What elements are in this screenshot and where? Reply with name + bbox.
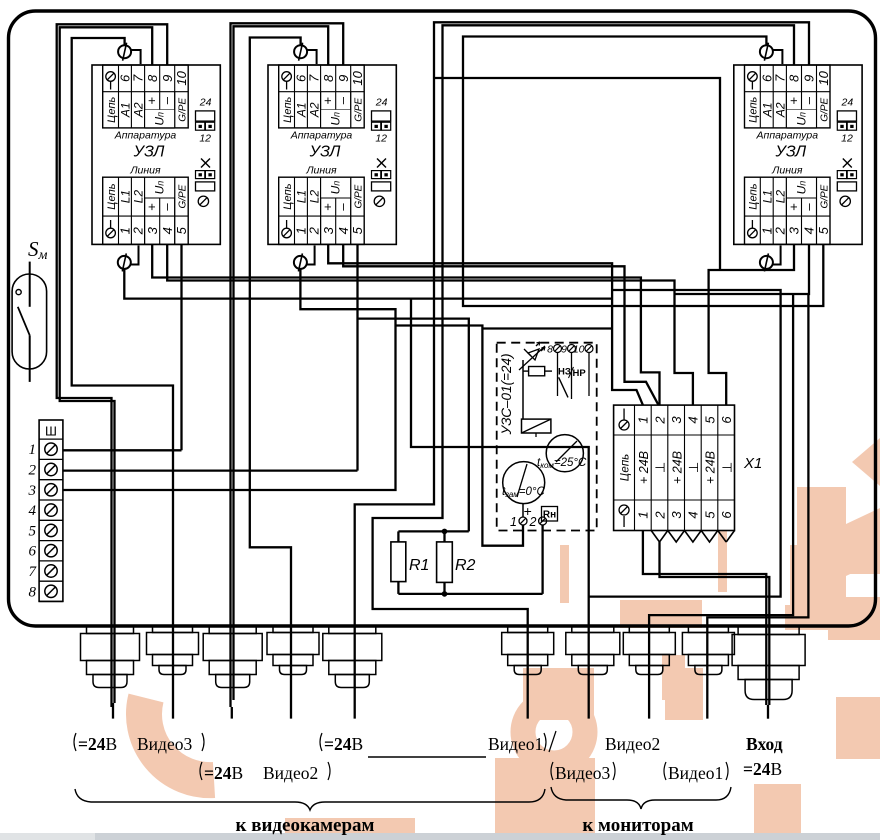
svg-text:2: 2: [652, 416, 667, 425]
svg-text:=24В: =24В: [324, 734, 363, 754]
svg-text:2: 2: [529, 515, 537, 529]
svg-text:3: 3: [28, 483, 37, 499]
svg-text:4: 4: [29, 503, 37, 519]
svg-text:Видео1: Видео1: [668, 763, 723, 783]
svg-text:1: 1: [29, 442, 37, 458]
svg-text:⊥: ⊥: [719, 462, 734, 473]
svg-text:к видеокамерам: к видеокамерам: [236, 815, 375, 836]
svg-text:=24В: =24В: [78, 734, 117, 754]
svg-text:Видео3: Видео3: [555, 763, 610, 783]
svg-text:+ 24В: + 24В: [704, 451, 718, 484]
svg-text:R1: R1: [409, 557, 429, 574]
svg-text:1: 1: [510, 515, 517, 529]
svg-text:5: 5: [702, 511, 717, 519]
svg-text:Вход: Вход: [746, 734, 783, 754]
svg-text:2: 2: [29, 463, 37, 479]
svg-text:3: 3: [669, 511, 684, 519]
svg-text:X1: X1: [743, 455, 762, 472]
svg-text:Видео2: Видео2: [605, 734, 660, 754]
svg-text:8: 8: [547, 344, 553, 356]
svg-text:УЗС–01(=24): УЗС–01(=24): [499, 354, 514, 436]
svg-text:6: 6: [719, 416, 734, 424]
svg-text:Видео1: Видео1: [488, 734, 543, 754]
svg-text:+ 24В: + 24В: [637, 451, 651, 484]
svg-text:3: 3: [669, 416, 684, 424]
svg-text:+ 24В: + 24В: [670, 451, 684, 484]
svg-text:Ш: Ш: [45, 424, 57, 439]
svg-text:6: 6: [719, 511, 734, 519]
svg-text:=24В: =24В: [743, 759, 782, 779]
svg-text:8: 8: [29, 584, 37, 600]
svg-text:5: 5: [29, 523, 37, 539]
svg-text:6: 6: [29, 544, 37, 560]
svg-text:⊥: ⊥: [653, 462, 668, 473]
svg-text:R2: R2: [455, 557, 476, 574]
svg-text:5: 5: [702, 416, 717, 424]
svg-text:1: 1: [636, 511, 651, 518]
svg-text:Видео2: Видео2: [263, 763, 318, 783]
svg-text:1: 1: [636, 416, 651, 423]
svg-text:⊥: ⊥: [686, 462, 701, 473]
svg-text:к мониторам: к мониторам: [582, 815, 693, 836]
svg-text:9: 9: [561, 344, 567, 356]
svg-text:4: 4: [686, 511, 701, 518]
svg-text:=24В: =24В: [204, 763, 243, 783]
svg-text:2: 2: [652, 511, 667, 520]
svg-text:Видео3: Видео3: [137, 734, 192, 754]
svg-text:НР: НР: [573, 368, 587, 379]
svg-text:Цепь: Цепь: [620, 454, 632, 481]
svg-text:4: 4: [686, 416, 701, 423]
